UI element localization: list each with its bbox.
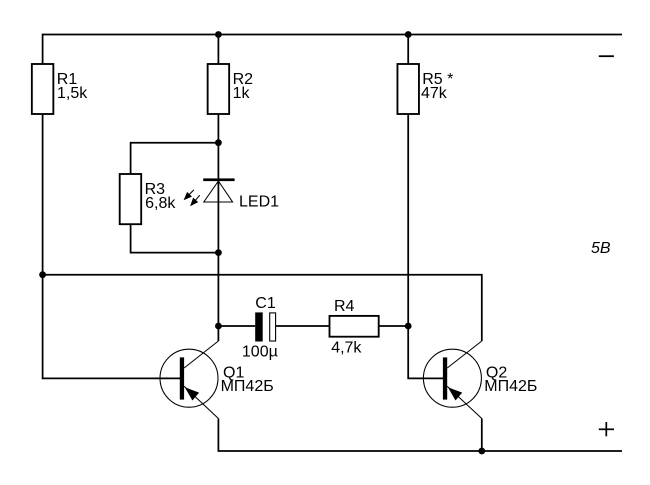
svg-text:1,5k: 1,5k [57,85,88,102]
svg-text:LED1: LED1 [239,193,279,210]
svg-text:R4: R4 [334,298,355,315]
svg-text:4,7k: 4,7k [331,340,362,357]
svg-text:6,8k: 6,8k [145,195,176,212]
svg-text:МП42Б: МП42Б [484,378,537,395]
svg-text:МП42Б: МП42Б [221,378,274,395]
svg-text:1k: 1k [233,85,251,102]
svg-text:5В: 5В [591,240,611,257]
svg-text:47k: 47k [421,85,448,102]
svg-text:C1: C1 [255,295,276,312]
svg-text:100µ: 100µ [242,343,278,360]
